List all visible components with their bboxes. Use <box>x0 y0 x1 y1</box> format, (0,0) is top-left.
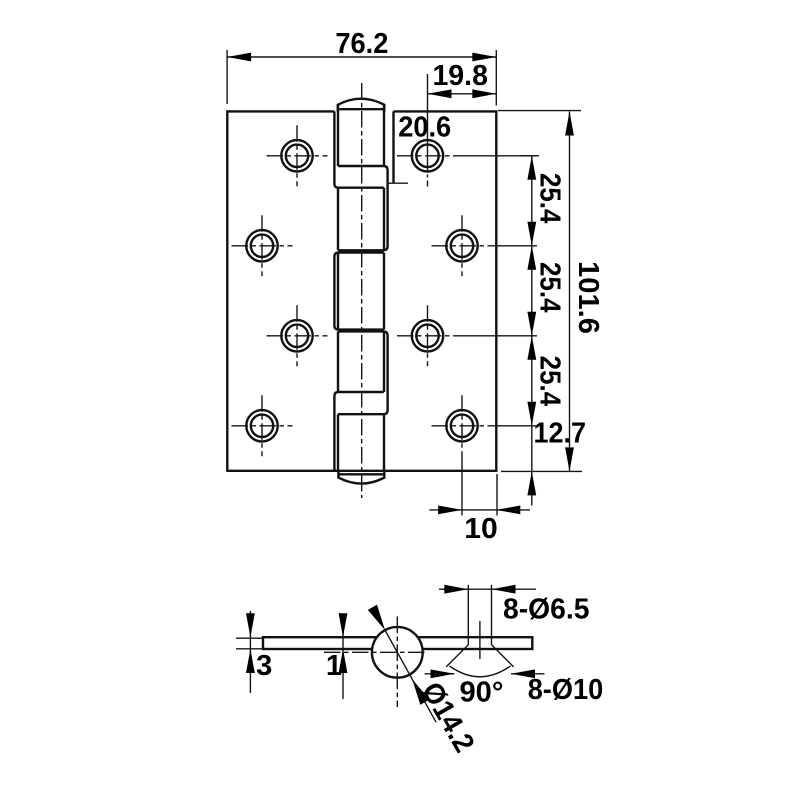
svg-text:10: 10 <box>464 513 498 545</box>
knuckle 4 (right leaf) <box>338 331 388 414</box>
dim 101.6 extension lines <box>498 110 581 112</box>
knuckle 1 (top, left leaf) <box>334 111 383 187</box>
svg-text:20.6: 20.6 <box>398 111 451 143</box>
svg-text:25.4: 25.4 <box>533 262 565 313</box>
dim 19.8 arrows <box>428 89 452 98</box>
chain arrows <box>527 156 536 180</box>
dim 8-dia6.5 extension lines <box>467 585 469 637</box>
dim 19.8 line <box>428 93 497 95</box>
section bar (leaf cross-section) <box>263 637 532 649</box>
svg-text:3: 3 <box>256 650 272 682</box>
knuckle 3 (left leaf) <box>334 253 383 330</box>
circle centerline vertical <box>396 617 398 708</box>
dim 1 arrows <box>339 613 348 637</box>
svg-text:90°: 90° <box>460 677 504 709</box>
screw hole D1 (row4 left) <box>246 410 277 441</box>
dim 10 extension line right <box>496 474 498 516</box>
knuckle 5 (bottom, left leaf) <box>334 392 383 471</box>
svg-text:8-Ø6.5: 8-Ø6.5 <box>503 593 590 625</box>
circle centerline horizontal <box>324 651 427 653</box>
svg-text:25.4: 25.4 <box>533 173 565 224</box>
dim 101.6 line <box>569 112 571 472</box>
dim 20.6 lower extension tick <box>388 182 409 184</box>
chain row extension overshoots <box>520 155 539 157</box>
countersink centerline <box>479 621 481 659</box>
svg-text:101.6: 101.6 <box>572 261 604 334</box>
screw hole A1 (row1 left) <box>281 140 312 171</box>
svg-text:1: 1 <box>326 650 342 682</box>
dim 1 line <box>342 621 344 699</box>
barrel inner edge lines <box>337 105 339 166</box>
dia 14.2 leader arrow upper <box>368 605 385 630</box>
dim 90deg arrows <box>425 673 455 675</box>
chain dim line <box>531 156 533 472</box>
screw hole C1 (row3 left) <box>281 320 312 351</box>
dim 10 line <box>429 509 530 511</box>
knuckle 2 (right leaf) <box>338 166 388 250</box>
dim 8-dia6.5 arrows <box>444 585 468 594</box>
barrel circle (pin section) <box>372 627 423 678</box>
dim 90deg arc <box>450 666 511 677</box>
screw hole B1 (row2 left) <box>246 230 277 261</box>
pin cap bottom <box>338 471 384 484</box>
pin cap top <box>338 99 385 112</box>
dim 76.2 line <box>227 56 496 58</box>
dim 76.2 extension lines <box>226 50 228 104</box>
screw hole A2 (row1 right) <box>412 140 443 171</box>
dim 12.7 text <box>536 421 587 447</box>
dia 14.2 leader line <box>385 630 436 722</box>
dim 3 arrows <box>246 613 255 637</box>
right leaf inner edge at barrel <box>392 111 394 183</box>
dim 10 arrows <box>438 506 462 515</box>
svg-text:25.4: 25.4 <box>533 356 565 407</box>
svg-text:8-Ø10: 8-Ø10 <box>528 674 604 706</box>
dia 14.2 leader arrow lower <box>412 679 429 704</box>
svg-text:12.7: 12.7 <box>534 418 587 450</box>
countersink cone lines <box>446 645 468 667</box>
dim 101.6 arrows <box>565 112 574 136</box>
dim 3 extension lines <box>236 637 263 639</box>
countersink hole walls <box>467 637 469 645</box>
screw hole B2 (row2 right) <box>446 230 477 261</box>
screw hole D2 (row4 right) <box>446 410 477 441</box>
dim 8-dia6.5 line <box>439 588 536 590</box>
dim 76.2 arrows <box>227 53 251 62</box>
svg-text:19.8: 19.8 <box>432 60 488 92</box>
dim 20.6 line <box>427 74 429 173</box>
dim 3 line <box>249 611 251 693</box>
svg-text:76.2: 76.2 <box>335 28 388 60</box>
hinge plate outline (front view) <box>227 110 334 112</box>
screw hole C2 (row3 right) <box>412 320 443 351</box>
pin centerline <box>361 83 363 498</box>
